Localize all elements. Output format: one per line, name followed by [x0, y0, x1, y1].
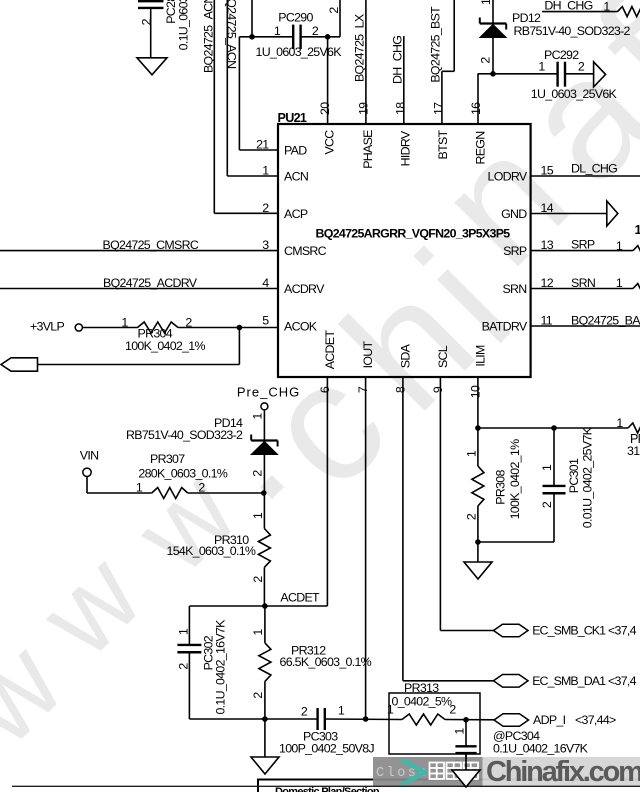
svg-text:EC_SMB_CK1: EC_SMB_CK1: [532, 624, 606, 638]
svg-text:PD12: PD12: [512, 11, 541, 25]
svg-text:17: 17: [431, 102, 445, 115]
svg-text:1: 1: [251, 512, 265, 519]
svg-text:ACN: ACN: [284, 170, 308, 184]
svg-text:1: 1: [540, 464, 554, 471]
svg-text:RB751V-40_SOD323-2: RB751V-40_SOD323-2: [126, 428, 243, 442]
svg-text:100K_0402_1%: 100K_0402_1%: [508, 439, 522, 519]
svg-text:1: 1: [479, 0, 493, 5]
svg-text:EC_SMB_DA1: EC_SMB_DA1: [532, 674, 606, 688]
svg-text:ILIM: ILIM: [473, 345, 487, 367]
svg-text:8: 8: [393, 386, 407, 393]
svg-text:16: 16: [469, 102, 483, 115]
svg-text:280K_0603_0.1%: 280K_0603_0.1%: [138, 467, 227, 481]
svg-text:DH_CHG: DH_CHG: [544, 0, 592, 13]
svg-text:1: 1: [538, 60, 545, 74]
svg-text:2: 2: [327, 7, 341, 14]
svg-text:PAD: PAD: [284, 144, 307, 158]
svg-text:1: 1: [251, 629, 265, 636]
svg-text:0.1U_0402_16V7K: 0.1U_0402_16V7K: [214, 619, 228, 715]
svg-text:PR307: PR307: [150, 452, 185, 466]
svg-text:BQ24725_ACDRV: BQ24725_ACDRV: [103, 276, 198, 290]
svg-text:1: 1: [603, 0, 610, 13]
svg-text:66.5K_0603_0.1%: 66.5K_0603_0.1%: [280, 655, 372, 669]
svg-text:2: 2: [262, 201, 269, 215]
svg-text:2: 2: [578, 60, 585, 74]
svg-text:PC290: PC290: [278, 11, 313, 25]
svg-text:7: 7: [356, 386, 370, 393]
svg-text:1: 1: [616, 239, 623, 253]
svg-text:SRP: SRP: [503, 244, 527, 258]
svg-text:ACDET: ACDET: [280, 591, 320, 605]
svg-text:PU21: PU21: [278, 111, 307, 125]
svg-text:316K: 316K: [627, 444, 640, 458]
svg-text:2: 2: [540, 501, 554, 508]
svg-text:ACP: ACP: [284, 207, 308, 221]
svg-text:SRN: SRN: [502, 282, 526, 296]
svg-text:9: 9: [431, 386, 445, 393]
svg-text:0.1U_0603_25V6K: 0.1U_0603_25V6K: [177, 0, 191, 50]
svg-text:PR308: PR308: [494, 470, 508, 505]
svg-text:1U_0603_25V6K: 1U_0603_25V6K: [531, 87, 618, 101]
svg-text:1: 1: [453, 728, 467, 735]
svg-text:10: 10: [468, 385, 482, 398]
svg-text:ACDRV: ACDRV: [284, 282, 325, 296]
svg-text:BATDRV: BATDRV: [482, 320, 528, 334]
svg-text:1: 1: [136, 481, 143, 495]
svg-text:SRP: SRP: [571, 237, 595, 251]
svg-text:SCL: SCL: [436, 345, 450, 368]
svg-text:VCC: VCC: [323, 130, 337, 155]
svg-text:2: 2: [312, 24, 319, 38]
svg-text:LODRV: LODRV: [488, 170, 528, 184]
svg-text:2: 2: [479, 57, 493, 64]
svg-text:HIDRV: HIDRV: [399, 130, 413, 166]
svg-text:18: 18: [394, 102, 408, 115]
svg-text:<37,4: <37,4: [608, 624, 637, 638]
svg-text:IOUT: IOUT: [361, 340, 375, 368]
svg-text:2: 2: [449, 703, 456, 717]
svg-text:2: 2: [250, 470, 264, 477]
svg-text:5: 5: [262, 313, 269, 327]
svg-text:BQ24725ARGRR_VQFN20_3P5X3P5: BQ24725ARGRR_VQFN20_3P5X3P5: [316, 227, 511, 241]
svg-text:19: 19: [356, 102, 370, 115]
svg-text:GND: GND: [501, 207, 527, 221]
svg-text:2: 2: [301, 705, 308, 719]
svg-text:154K_0603_0.1%: 154K_0603_0.1%: [167, 544, 256, 558]
svg-text:Pre_CHG: Pre_CHG: [237, 385, 300, 400]
svg-text:100K_0402_1%: 100K_0402_1%: [125, 339, 205, 353]
svg-text:RB751V-40_SOD323-2: RB751V-40_SOD323-2: [514, 24, 631, 38]
svg-text:0.01U_0402_25V7K: 0.01U_0402_25V7K: [581, 426, 595, 528]
svg-text:DH_CHG: DH_CHG: [391, 36, 405, 84]
svg-text:PHASE: PHASE: [361, 130, 375, 169]
svg-text:2: 2: [140, 18, 154, 25]
svg-text:BQ24725_ACN: BQ24725_ACN: [202, 0, 216, 73]
svg-text:Chinafix.com: Chinafix.com: [486, 756, 640, 788]
svg-text:DL_CHG: DL_CHG: [571, 162, 617, 176]
svg-text:6: 6: [318, 386, 332, 393]
svg-text:ACDET: ACDET: [323, 330, 337, 370]
svg-text:SDA: SDA: [398, 343, 412, 368]
svg-text:1: 1: [338, 704, 345, 718]
svg-text:2: 2: [465, 513, 479, 520]
svg-text:21: 21: [256, 137, 269, 151]
svg-text:2: 2: [185, 315, 192, 329]
svg-text:1: 1: [250, 413, 264, 420]
svg-text:BQ24725_ACN: BQ24725_ACN: [224, 0, 238, 68]
svg-text:100P_0402_50V8J: 100P_0402_50V8J: [279, 741, 374, 755]
svg-text:<37,44>: <37,44>: [575, 713, 616, 727]
svg-text:BQ24725_CMSRC: BQ24725_CMSRC: [103, 238, 199, 252]
svg-text:CMSRC: CMSRC: [284, 244, 327, 258]
svg-text:PC301: PC301: [567, 458, 581, 493]
svg-text:1: 1: [274, 24, 281, 38]
svg-text:20: 20: [318, 102, 332, 115]
svg-text:1U_0603_25V6K: 1U_0603_25V6K: [256, 45, 343, 59]
svg-text:+3VLP: +3VLP: [30, 319, 64, 333]
svg-text:1: 1: [262, 163, 269, 177]
svg-text:REGN: REGN: [474, 131, 488, 164]
svg-text:BTST: BTST: [436, 129, 450, 159]
svg-text:1: 1: [465, 450, 479, 457]
svg-text:1: 1: [387, 703, 394, 717]
svg-text:1: 1: [176, 628, 190, 635]
svg-text:PR313: PR313: [404, 681, 439, 695]
svg-text:ACOK: ACOK: [284, 320, 318, 334]
svg-text:PC292: PC292: [544, 48, 579, 62]
svg-text:2: 2: [198, 481, 205, 495]
svg-text:1: 1: [616, 276, 623, 290]
svg-text:VIN: VIN: [80, 449, 99, 463]
svg-text:0_0402_5%: 0_0402_5%: [392, 695, 453, 709]
svg-text:2: 2: [251, 692, 265, 699]
svg-text:1: 1: [121, 315, 128, 329]
svg-text:2: 2: [251, 576, 265, 583]
svg-text:SRN: SRN: [571, 276, 595, 290]
svg-text:10: 10: [635, 222, 640, 237]
svg-text:BQ24725_LX: BQ24725_LX: [353, 14, 367, 82]
svg-text:BQ24725_BA: BQ24725_BA: [571, 313, 640, 327]
svg-text:1: 1: [616, 416, 623, 430]
svg-text:2: 2: [176, 663, 190, 670]
svg-text:<37,4: <37,4: [608, 674, 637, 688]
svg-text:0.1U_0402_16V7K: 0.1U_0402_16V7K: [493, 741, 589, 755]
svg-text:BQ24725_BST: BQ24725_BST: [429, 6, 443, 83]
svg-text:ADP_I: ADP_I: [533, 713, 566, 727]
